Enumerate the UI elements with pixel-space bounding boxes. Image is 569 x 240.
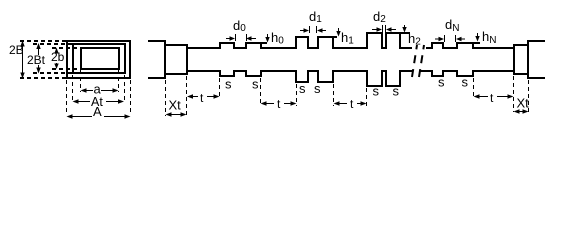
output guide bottom wall <box>527 77 545 79</box>
right transformer vertical (inner) <box>513 44 515 74</box>
svg-text:s: s <box>393 84 400 99</box>
Xt left dimension <box>166 112 187 116</box>
hN arrow <box>475 33 479 42</box>
rect 2b x a (corrugated guide opening) <box>81 48 119 69</box>
d0 tip ticks <box>235 34 237 41</box>
transformer top wall <box>164 44 188 46</box>
h1 arrow <box>336 28 340 37</box>
d0 arrows <box>226 36 256 40</box>
svg-text:s: s <box>462 75 469 90</box>
output port vertical <box>527 40 529 78</box>
dashed extension verticals, right figure <box>166 76 529 116</box>
t1 dimension <box>187 94 220 98</box>
svg-text:2B: 2B <box>9 43 24 57</box>
transformer right vertical <box>186 44 188 74</box>
break (continuation) dashed slant lines <box>412 45 424 77</box>
svg-text:s: s <box>438 75 445 90</box>
h0 tick <box>261 42 267 44</box>
svg-text:s: s <box>299 81 306 96</box>
h2 arrow <box>402 25 406 33</box>
Xt right dimension <box>514 109 529 113</box>
t2 dimension <box>261 101 297 105</box>
input port vertical (left flange step) <box>164 40 166 78</box>
d1 tip ticks <box>309 26 311 33</box>
bottom profile after break <box>419 71 514 76</box>
h0 arrow <box>265 34 269 43</box>
h2 tick <box>400 32 410 34</box>
2b dimension <box>54 48 58 70</box>
svg-text:2Bt: 2Bt <box>27 53 46 67</box>
h1 tick <box>333 36 337 38</box>
input guide bottom wall <box>148 77 166 79</box>
top profile after break: dN teeth <box>426 43 514 48</box>
t3 dimension <box>334 101 367 105</box>
dN tip ticks <box>444 35 446 42</box>
svg-text:s: s <box>225 77 232 92</box>
dashed extension lines left (tops) <box>20 40 66 42</box>
rect 2Bt x At (transformer opening) <box>73 44 125 73</box>
A dimension <box>67 114 131 118</box>
right transformer bottom wall <box>513 73 528 75</box>
dashed extension lines left (bottoms) <box>20 77 66 79</box>
svg-text:s: s <box>252 77 259 92</box>
corrugated waveguide low-pass filter figure <box>0 0 569 134</box>
bottom corrugated profile (mirror) <box>186 71 413 86</box>
input guide top wall <box>148 40 166 42</box>
rect 2B x A (outer guide opening) <box>67 41 130 78</box>
dashed extension verticals below (for a, At, A) <box>80 70 82 92</box>
hN tick <box>473 42 480 44</box>
svg-text:Xt: Xt <box>517 96 530 111</box>
svg-text:s: s <box>373 84 380 99</box>
svg-text:2b: 2b <box>51 50 65 64</box>
output guide top wall <box>527 40 545 42</box>
svg-text:A: A <box>93 104 102 119</box>
d1 arrows <box>300 28 326 32</box>
svg-text:s: s <box>314 81 321 96</box>
svg-text:Xt: Xt <box>169 98 182 113</box>
At dimension <box>73 99 125 103</box>
top corrugated profile: baseline with teeth d0,d1,d2 <box>186 33 412 48</box>
2Bt dimension <box>36 43 40 74</box>
d2 tip ticks <box>382 25 384 32</box>
d2 arrows <box>372 27 396 31</box>
t4 dimension <box>474 94 514 98</box>
right transformer top wall <box>513 44 528 46</box>
2B dimension <box>20 41 24 79</box>
a dimension <box>81 88 119 92</box>
dN arrows <box>435 37 465 41</box>
transformer bottom wall <box>164 73 188 75</box>
